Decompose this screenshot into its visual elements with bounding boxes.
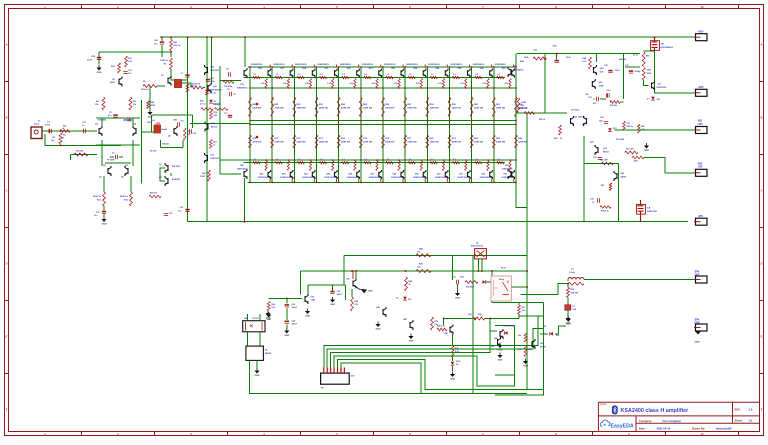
resistor R41b 150R	[642, 68, 645, 81]
transistor U50	[532, 339, 535, 349]
svg-text:Q9: Q9	[168, 136, 171, 138]
transistor U10 bias	[205, 122, 208, 132]
transistor U28 top-right driver	[508, 67, 511, 77]
resistor R61 220R row A	[492, 97, 506, 117]
svg-text:NJW3281G: NJW3281G	[513, 69, 524, 71]
transistor Q2 input pair	[133, 126, 136, 136]
transistor U41	[305, 294, 308, 304]
resistor R40 91R 1w	[642, 52, 645, 67]
wire sense A drop	[343, 255, 345, 285]
resistor R76 220R row B	[382, 135, 396, 148]
capacitor C43	[285, 304, 289, 306]
ground class-H	[646, 143, 648, 146]
resistor R14 560R	[130, 192, 133, 206]
wire opto pins up	[247, 314, 249, 321]
ground cluster a	[525, 359, 527, 362]
svg-text:BD911: BD911	[603, 151, 609, 153]
svg-text:0.22: 0.22	[327, 83, 331, 85]
resistor R49 5k6	[524, 112, 534, 115]
svg-text:220R 5W: 220R 5W	[319, 142, 329, 144]
svg-text:GND: GND	[305, 316, 310, 318]
resistor R23	[209, 140, 212, 149]
svg-text:NJW3281G: NJW3281G	[406, 64, 418, 66]
svg-text:10: 10	[647, 99, 649, 101]
capacitor C19	[598, 158, 602, 160]
svg-text:2.2: 2.2	[387, 159, 390, 161]
capacitor C17	[228, 115, 232, 117]
svg-text:3.3: 3.3	[342, 74, 345, 76]
svg-text:220R 5W: 220R 5W	[474, 108, 484, 110]
svg-text:GND: GND	[266, 318, 271, 320]
svg-text:E: E	[761, 335, 763, 339]
svg-text:100R: 100R	[200, 176, 205, 178]
resistor R75 220R row B	[359, 135, 373, 148]
transistor Q9	[174, 126, 177, 136]
svg-text:C38: C38	[337, 291, 340, 293]
wire Q10 collector feed	[211, 37, 213, 84]
svg-text:Drawn By:: Drawn By:	[692, 427, 705, 431]
svg-text:3.3: 3.3	[364, 74, 367, 76]
wire VB- out	[614, 129, 694, 131]
svg-text:E: E	[6, 335, 8, 339]
svg-text:GND: GND	[97, 72, 102, 74]
transistor U37 (NJW1302G) bottom row	[406, 159, 426, 183]
svg-text:U48: U48	[494, 337, 497, 340]
resistor R51	[623, 121, 626, 130]
resistor R41 4.7k 1w	[170, 40, 173, 51]
wire c15 row	[593, 98, 596, 100]
svg-text:C17: C17	[224, 113, 227, 115]
svg-text:RFP30N06LE: RFP30N06LE	[661, 47, 674, 49]
transistor U19 (NJW3281G) top row	[318, 64, 338, 88]
svg-text:2W: 2W	[521, 105, 524, 107]
capacitor C6	[127, 119, 131, 121]
wire L3 left	[567, 280, 569, 282]
svg-text:4.7k 1w: 4.7k 1w	[173, 44, 181, 47]
svg-text:0.22: 0.22	[261, 83, 265, 85]
svg-text:75uF: 75uF	[615, 70, 620, 72]
wire down to U46 area	[443, 319, 445, 326]
svg-text:U38: U38	[311, 297, 314, 299]
resistor R42	[637, 124, 640, 133]
svg-text:0.22: 0.22	[350, 83, 354, 85]
capacitor C16	[606, 93, 608, 97]
svg-text:BD139: BD139	[211, 126, 217, 128]
svg-text:NJW1302G: NJW1302G	[280, 177, 292, 179]
grid column wires	[250, 67, 516, 182]
svg-text:220R 5W: 220R 5W	[274, 142, 284, 144]
wire cluster top	[519, 315, 543, 317]
svg-text:U46: U46	[444, 332, 447, 335]
resistor R71	[223, 81, 234, 84]
wire mid node	[308, 284, 346, 286]
svg-text:1N5341: 1N5341	[162, 143, 169, 146]
capacitor C37	[629, 70, 633, 72]
svg-text:SPK: SPK	[695, 271, 700, 273]
resistor R50 220R row A	[249, 97, 263, 117]
transistor Q14	[594, 65, 597, 75]
transistor Q6	[168, 76, 171, 86]
svg-text:2.2: 2.2	[497, 159, 500, 161]
thermistor RT1	[175, 80, 182, 88]
transistor U33 (NJW1302G) bottom row	[318, 159, 338, 183]
capacitor C15	[597, 97, 599, 101]
svg-text:220R 5W: 220R 5W	[496, 108, 506, 110]
svg-text:R26 4.7k: R26 4.7k	[150, 191, 157, 194]
svg-text:NJW3281G: NJW3281G	[428, 64, 440, 66]
capacitor C29	[190, 129, 192, 133]
svg-text:1.0: 1.0	[749, 408, 753, 412]
svg-text:PC2: PC2	[211, 78, 215, 80]
svg-text:C23: C23	[169, 213, 172, 215]
svg-text:R7 100R: R7 100R	[107, 160, 115, 162]
capacitor C30	[457, 280, 459, 284]
svg-text:2.2: 2.2	[276, 159, 279, 161]
svg-text:NJW1302G: NJW1302G	[413, 177, 425, 179]
resistor R20	[208, 170, 211, 181]
diode D40 zener	[651, 97, 655, 100]
svg-text:100R: 100R	[599, 85, 604, 87]
svg-text:D: D	[761, 262, 763, 266]
svg-text:-35V: -35V	[697, 166, 702, 169]
inductor L3 1.3uH	[568, 278, 584, 280]
svg-text:150R 1w: 150R 1w	[160, 60, 168, 62]
junction dots protection	[405, 270, 407, 272]
svg-text:GND: GND	[409, 341, 414, 343]
svg-text:NJW3281G: NJW3281G	[362, 64, 374, 66]
resistor R79 220R row B	[448, 135, 462, 148]
capacitor C1 10uF	[48, 129, 50, 133]
svg-text:D: D	[6, 262, 8, 266]
capacitor C34	[555, 60, 559, 62]
svg-text:3.3: 3.3	[387, 74, 390, 76]
svg-text:100uF: 100uF	[337, 294, 343, 296]
svg-text:220R 5W: 220R 5W	[474, 142, 484, 144]
svg-text:KSD-01F D16: KSD-01F D16	[471, 246, 483, 248]
svg-text:R57: R57	[601, 185, 604, 187]
capacitor C8	[230, 92, 232, 96]
svg-text:NJW3281G: NJW3281G	[251, 64, 263, 66]
connector pins	[323, 368, 325, 374]
capacitor C5	[113, 114, 117, 116]
capacitor C6b	[110, 156, 114, 158]
svg-text:R30: R30	[478, 314, 481, 316]
transistor Q7 pre-driver	[165, 163, 168, 173]
resistor R57 220R row A	[404, 97, 418, 117]
transistor U21 (NJW3281G) top row	[362, 64, 382, 88]
svg-text:GND: GND	[695, 342, 700, 344]
wire r30	[444, 318, 472, 320]
transistor U45	[410, 320, 413, 330]
wire bus 4	[334, 356, 514, 386]
resistor R9 300k	[143, 85, 157, 88]
svg-text:2.2: 2.2	[475, 159, 478, 161]
svg-text:C: C	[6, 189, 8, 193]
svg-text:+35V: +35V	[697, 123, 703, 126]
svg-text:2.2: 2.2	[342, 159, 345, 161]
transistor Q4 mirror	[125, 166, 128, 176]
svg-text:100R: 100R	[647, 73, 652, 75]
resistor R13 560R	[103, 192, 106, 206]
wire +85V top rail	[160, 36, 694, 38]
transistor U51	[498, 337, 501, 347]
svg-text:GND: GND	[148, 117, 153, 119]
transistor U26 (NJW3281G) top row	[473, 64, 493, 88]
capacitor C40	[160, 41, 164, 43]
svg-text:NJW1302G: NJW1302G	[325, 177, 337, 179]
svg-text:220R 5W: 220R 5W	[363, 108, 373, 110]
svg-text:R28: R28	[634, 160, 637, 162]
resistor R17	[186, 84, 189, 92]
wire driver base top	[220, 80, 241, 82]
svg-text:KSA1381: KSA1381	[172, 178, 180, 181]
svg-text:C41: C41	[626, 122, 629, 125]
svg-text:TLP521: TLP521	[252, 318, 259, 320]
resistor R21	[125, 56, 128, 67]
svg-text:220R 5W: 220R 5W	[341, 142, 351, 144]
diode D15	[403, 297, 407, 300]
svg-text:NJW3281: NJW3281	[211, 70, 219, 72]
svg-text:D5 15V: D5 15V	[150, 151, 157, 153]
wire c37 row	[625, 66, 640, 68]
ground input stage	[103, 214, 105, 217]
transistor Q13 bottom-left driver	[244, 169, 247, 179]
wire left supply vertical A	[187, 37, 189, 222]
transistor U16 (NJW3281G) top row	[251, 64, 271, 88]
svg-text:2.2: 2.2	[298, 159, 301, 161]
transistor Q1 input pair	[99, 126, 102, 136]
transistor U38 (NJW1302G) bottom row	[428, 159, 448, 183]
resistor R77 220R row B	[404, 135, 418, 148]
svg-text:220R 5W: 220R 5W	[319, 108, 329, 110]
svg-text:GND: GND	[368, 291, 373, 293]
svg-text:NJW3281G: NJW3281G	[340, 64, 352, 66]
svg-text:NJW1302G: NJW1302G	[435, 177, 447, 179]
svg-text:U50: U50	[540, 343, 543, 345]
transistor Q8 pre-driver	[165, 176, 168, 186]
svg-text:560R 1w: 560R 1w	[93, 196, 101, 198]
svg-text:91 1w: 91 1w	[633, 55, 639, 57]
wire input ground return	[45, 134, 121, 145]
svg-text:GND: GND	[455, 298, 460, 300]
svg-text:EasyEDA: EasyEDA	[611, 424, 634, 430]
wire bus 1	[324, 316, 538, 368]
resistor R22	[118, 63, 121, 73]
svg-text:NJW3281G: NJW3281G	[495, 64, 507, 66]
wire sense to relay block	[451, 255, 453, 280]
svg-text:0.22: 0.22	[460, 83, 464, 85]
svg-text:BC557: BC557	[540, 346, 546, 348]
svg-text:NJW1302G: NJW1302G	[458, 177, 470, 179]
svg-text:0.22: 0.22	[283, 83, 287, 85]
ground U47b	[499, 343, 501, 346]
svg-text:C945: C945	[311, 299, 316, 302]
transistor U39 (NJW1302G) bottom row	[451, 159, 471, 183]
svg-text:U40: U40	[621, 172, 624, 175]
svg-text:NJW1302G: NJW1302G	[657, 87, 667, 89]
svg-text:KSC1845: KSC1845	[124, 118, 132, 121]
resistor R55 0.22R right edge	[517, 98, 520, 112]
svg-text:220R 5W: 220R 5W	[496, 142, 506, 144]
resistor R26b	[149, 195, 161, 198]
svg-text:D15: D15	[408, 299, 411, 301]
svg-text:C19: C19	[593, 157, 596, 159]
bridge B1	[246, 346, 264, 360]
svg-text:GND: GND	[255, 375, 260, 377]
transistor U25 (NJW3281G) top row	[451, 64, 471, 88]
svg-text:10uF: 10uF	[566, 57, 571, 59]
wire opto to bridge	[247, 332, 249, 346]
svg-text:560R 1w: 560R 1w	[120, 196, 128, 198]
resistor R6 tail	[129, 97, 132, 110]
transistor U14 BD139	[571, 116, 574, 126]
wire driver base bottom	[220, 173, 241, 175]
svg-text:300k 1w: 300k 1w	[141, 89, 149, 91]
wire relay coil feed	[492, 271, 543, 302]
svg-text:KSC3503: KSC3503	[172, 166, 180, 168]
resistor R73	[215, 108, 229, 111]
resistor R72 220R row B	[293, 135, 307, 148]
wire bridge to bus	[250, 360, 527, 393]
svg-text:U9 TL431: U9 TL431	[571, 109, 579, 112]
svg-text:4.7k 1w: 4.7k 1w	[190, 85, 197, 88]
ground C30	[457, 284, 459, 291]
svg-text:NJW1302G: NJW1302G	[237, 168, 248, 170]
svg-text:C2B: C2B	[173, 120, 177, 122]
svg-text:C38: C38	[590, 198, 593, 200]
wire diff pair	[101, 118, 103, 126]
svg-text:3.3: 3.3	[320, 74, 323, 76]
svg-text:D11: D11	[556, 335, 559, 337]
resistor R31 2.2k	[518, 305, 521, 314]
svg-text:abcboyan95: abcboyan95	[716, 427, 732, 431]
resistor R12 4.7k	[191, 86, 203, 89]
svg-text:TITLE:: TITLE:	[600, 404, 607, 406]
transistor U24 (NJW3281G) top row	[428, 64, 448, 88]
transistor U12b VAS upper	[205, 65, 208, 75]
svg-text:NJW1302G: NJW1302G	[391, 177, 403, 179]
resistor R34 4.7k	[267, 302, 270, 311]
svg-text:0.22: 0.22	[372, 83, 376, 85]
svg-text:220R 5W: 220R 5W	[452, 108, 462, 110]
svg-text:R40 4.7k: R40 4.7k	[437, 324, 446, 327]
svg-text:NJW1302G: NJW1302G	[369, 177, 381, 179]
transistor U17 (NJW3281G) top row	[273, 64, 293, 88]
svg-text:R40: R40	[646, 55, 649, 58]
transistor U31 (NJW1302G) bottom row	[273, 159, 293, 183]
capacitor PC2	[206, 79, 210, 81]
svg-text:220R 5W: 220R 5W	[452, 142, 462, 144]
resistor R40b	[437, 328, 447, 331]
fuse F1	[567, 297, 569, 305]
ground LED	[452, 372, 454, 375]
svg-text:220R 5W: 220R 5W	[363, 142, 373, 144]
capacitor C39	[285, 320, 289, 322]
resistor R56	[602, 162, 614, 165]
transistor Q19	[595, 145, 598, 155]
svg-text:100uF: 100uF	[292, 307, 298, 309]
capacitor C23	[164, 214, 168, 216]
resistor R4	[60, 130, 70, 133]
wire vertical 623.3	[622, 54, 624, 99]
resistor R30 10R	[472, 317, 485, 320]
svg-text:GND: GND	[284, 335, 289, 337]
capacitor C8b	[229, 72, 231, 76]
wire bottom base line	[244, 162, 506, 164]
wire upper-left feed	[99, 51, 171, 53]
transistor Q17 NJW1302G	[652, 81, 655, 91]
optocoupler U40 TLP521	[243, 321, 265, 332]
output stage grid rails	[248, 66, 516, 68]
svg-text:REV:: REV:	[735, 408, 741, 412]
resistor R62 220R row A	[515, 97, 529, 117]
wire driver supply top	[244, 37, 246, 67]
svg-text:C: C	[761, 189, 763, 193]
svg-text:GND: GND	[330, 304, 335, 306]
resistor R58 220R row A	[426, 97, 440, 117]
resistor R59 220R row A	[448, 97, 462, 117]
wire left supply vertical B	[206, 37, 208, 222]
svg-text:GND: GND	[523, 366, 528, 368]
wire pre-driver	[170, 173, 172, 176]
ground top right of cluster	[567, 316, 569, 319]
wire bus 2	[327, 329, 543, 368]
svg-text:2.2: 2.2	[254, 159, 257, 161]
ground cluster b	[499, 353, 501, 356]
resistor R73 220R row B	[315, 135, 329, 148]
svg-text:KSA2400 class H amplifier: KSA2400 class H amplifier	[621, 408, 690, 414]
resistor R52 220R row A	[293, 97, 307, 117]
grid junctions	[249, 66, 251, 68]
wire bus 5	[338, 360, 544, 390]
svg-text:C36: C36	[585, 94, 588, 96]
ground R34	[268, 312, 270, 315]
vbe multiplier loop wires	[152, 114, 193, 116]
svg-text:U7A: U7A	[147, 121, 151, 124]
ground C38	[332, 297, 334, 300]
connector U47	[321, 373, 350, 384]
svg-text:3.3: 3.3	[409, 74, 412, 76]
wire vas mid	[190, 122, 250, 124]
svg-text:10uF: 10uF	[87, 59, 93, 61]
diode D13	[608, 128, 612, 131]
capacitor C13	[123, 72, 127, 74]
wire vertical 596.7	[596, 54, 598, 62]
svg-text:470R: 470R	[151, 104, 156, 107]
svg-text:0.22: 0.22	[394, 83, 398, 85]
emitter junction dots	[265, 87, 267, 89]
transistor U22 (NJW3281G) top row	[384, 64, 404, 88]
wire mirror	[105, 162, 131, 164]
LED D301	[451, 362, 455, 365]
resistor R74 220R row B	[337, 135, 351, 148]
transistor Q3 mirror	[108, 166, 111, 176]
svg-text:MB10F: MB10F	[265, 353, 272, 355]
svg-text:D8: D8	[544, 326, 546, 328]
resistor R65	[465, 281, 478, 284]
transistor U30 (NJW1302G) bottom row	[251, 159, 271, 183]
diode D2	[209, 100, 213, 103]
svg-text:GND: GND	[644, 150, 649, 152]
transistor U36 (NJW1302G) bottom row	[384, 159, 404, 183]
wire bus 6	[341, 363, 421, 394]
wire caps column	[286, 299, 288, 304]
transistor Q15	[592, 79, 595, 89]
svg-text:R50: R50	[554, 138, 557, 140]
svg-text:3.3: 3.3	[431, 74, 434, 76]
svg-text:RLY1: RLY1	[501, 267, 507, 269]
ground U41	[307, 309, 309, 312]
